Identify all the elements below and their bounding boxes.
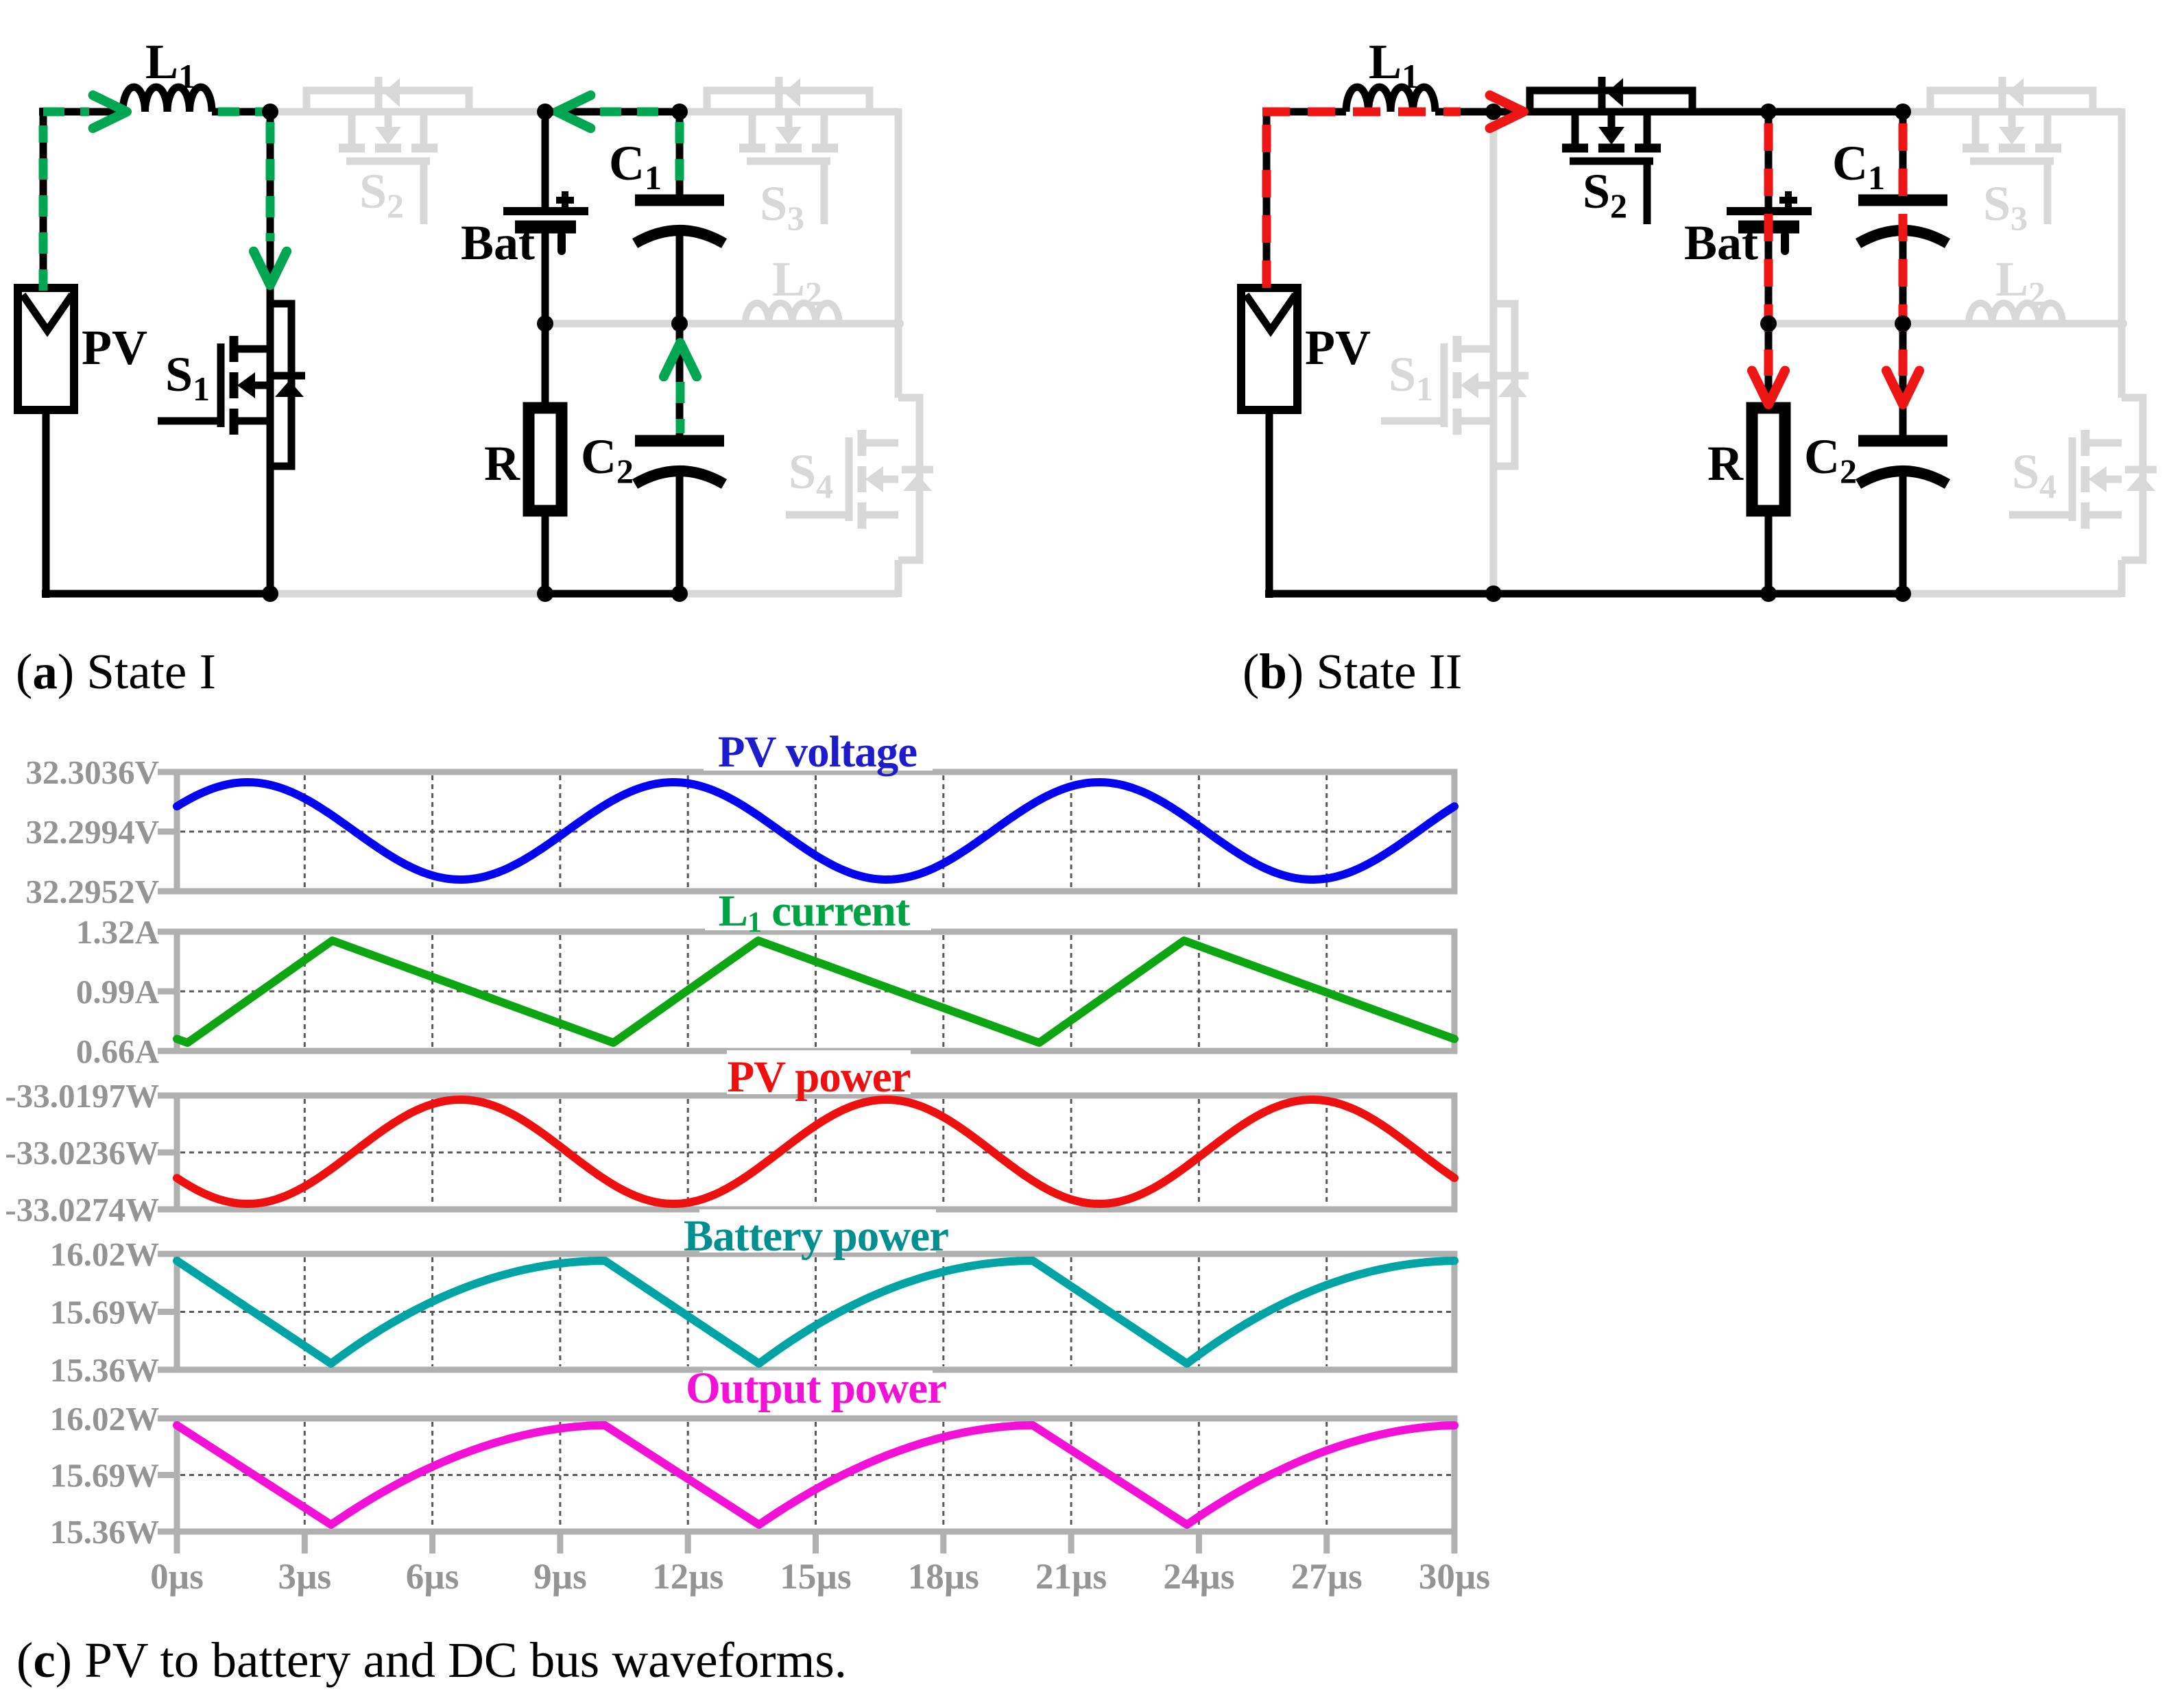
svg-text:R: R [484,436,520,491]
svg-text:-33.0197W: -33.0197W [5,1077,159,1115]
svg-text:1.32A: 1.32A [76,913,160,951]
svg-text:15.36W: 15.36W [50,1351,159,1389]
svg-text:PV: PV [1305,320,1371,375]
svg-text:18µs: 18µs [908,1557,979,1597]
svg-text:-33.0236W: -33.0236W [5,1134,159,1172]
svg-text:15.36W: 15.36W [50,1513,159,1551]
svg-text:Bat: Bat [1684,215,1758,270]
svg-text:30µs: 30µs [1419,1557,1490,1597]
svg-text:3µs: 3µs [278,1557,331,1597]
svg-text:12µs: 12µs [652,1557,723,1597]
svg-text:-33.0274W: -33.0274W [5,1191,159,1229]
svg-text:15µs: 15µs [780,1557,851,1597]
svg-text:0µs: 0µs [150,1557,204,1597]
svg-text:16.02W: 16.02W [50,1235,159,1273]
svg-text:21µs: 21µs [1035,1557,1107,1597]
svg-text:PV voltage: PV voltage [718,727,917,777]
svg-text:Output power: Output power [686,1364,946,1413]
svg-text:(a) State I: (a) State I [16,644,216,699]
svg-text:32.2994V: 32.2994V [25,813,159,851]
svg-text:(c) PV to battery and DC bus w: (c) PV to battery and DC bus waveforms. [16,1632,847,1688]
svg-text:PV power: PV power [727,1052,910,1102]
svg-text:L1 current: L1 current [719,886,911,939]
svg-text:0.66A: 0.66A [76,1032,160,1070]
svg-text:27µs: 27µs [1291,1557,1363,1597]
svg-text:32.3036V: 32.3036V [25,753,159,791]
svg-text:(b) State II: (b) State II [1243,644,1462,699]
svg-text:Battery power: Battery power [684,1211,948,1261]
svg-text:PV: PV [82,320,147,375]
svg-text:16.02W: 16.02W [50,1400,159,1438]
svg-text:R: R [1707,436,1744,491]
svg-text:6µs: 6µs [406,1557,459,1597]
svg-text:9µs: 9µs [533,1557,587,1597]
svg-text:24µs: 24µs [1163,1557,1234,1597]
svg-text:15.69W: 15.69W [50,1294,159,1331]
svg-text:15.69W: 15.69W [50,1457,159,1495]
svg-text:32.2952V: 32.2952V [25,873,159,910]
svg-text:0.99A: 0.99A [76,973,160,1011]
svg-text:Bat: Bat [461,215,535,270]
